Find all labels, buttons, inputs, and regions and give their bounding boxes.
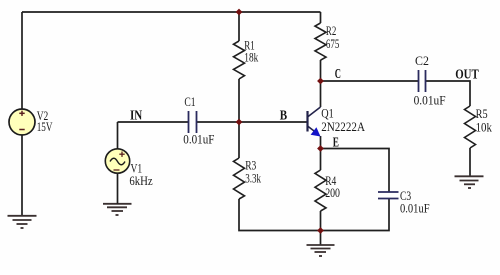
capacitor C3	[378, 192, 399, 199]
svg-text:0.01uF: 0.01uF	[414, 93, 446, 108]
svg-text:B: B	[280, 109, 287, 124]
junction ground bus	[317, 227, 324, 234]
ground main (emitter bus)	[307, 245, 335, 256]
svg-text:0.01uF: 0.01uF	[183, 132, 214, 147]
ground under V2	[8, 216, 37, 228]
wire C1 to node B junction	[197, 121, 239, 123]
svg-text:IN: IN	[130, 108, 142, 123]
resistor R4	[315, 170, 326, 211]
wire R3 bottom lead and bottom bus to ground junction	[239, 199, 321, 231]
wire main ground stub	[320, 231, 322, 245]
capacitor C1	[189, 111, 197, 133]
wire V1 stub up to IN wire	[117, 122, 119, 149]
junction node B	[236, 119, 243, 126]
svg-text:10k: 10k	[476, 119, 493, 134]
V1 sine wave	[110, 158, 125, 165]
V1 plus mark	[119, 152, 124, 157]
wire R1 top lead from bus	[238, 12, 240, 41]
svg-text:C2: C2	[415, 53, 429, 68]
wire R3 top lead	[238, 122, 240, 158]
wire R2 bottom lead to node C	[320, 60, 322, 81]
V1 minus mark	[114, 169, 120, 171]
resistor R2	[315, 23, 326, 60]
source V2	[9, 109, 35, 135]
ground under V1	[103, 204, 132, 215]
svg-text:3.3k: 3.3k	[245, 170, 261, 185]
transistor Q1	[308, 107, 321, 134]
wire IN node to C1	[118, 121, 189, 123]
wire C2 to OUT corner down to R5	[426, 81, 470, 106]
junction node E	[317, 145, 324, 152]
svg-text:15V: 15V	[37, 119, 53, 134]
svg-text:675: 675	[326, 36, 339, 51]
wire R5 bottom lead to ground	[469, 148, 471, 176]
wire base: node B junction to Q1 base	[239, 121, 307, 123]
wire V2 bottom to ground	[21, 135, 23, 215]
svg-text:18k: 18k	[244, 50, 258, 65]
source V1	[105, 149, 129, 173]
wire bottom bus right: ground junction to C3 bottom	[321, 198, 390, 231]
svg-text:2N2222A: 2N2222A	[321, 119, 365, 134]
capacitor C2	[419, 70, 426, 92]
wire V1 bottom to ground	[117, 174, 119, 204]
V2 plus mark	[19, 111, 24, 116]
svg-text:200: 200	[325, 185, 340, 200]
wire R4 bottom lead	[320, 211, 322, 231]
wire node C to C2	[321, 80, 419, 82]
svg-text:6kHz: 6kHz	[129, 173, 152, 188]
ground under R5	[455, 176, 484, 188]
wire node E to C3 top	[321, 149, 390, 193]
resistor R1	[234, 41, 245, 79]
resistor R5	[465, 106, 476, 148]
svg-text:E: E	[333, 135, 339, 150]
wire collector: node C down to Q1	[320, 81, 322, 107]
junction node at top bus / R1	[236, 9, 243, 16]
V2 minus mark	[19, 129, 24, 131]
wire R1 bottom lead to node B	[238, 79, 240, 122]
Q1 emitter arrow	[311, 127, 321, 136]
junction node C	[317, 78, 324, 85]
resistor R3	[234, 158, 245, 199]
svg-text:C: C	[335, 67, 341, 82]
svg-text:C1: C1	[184, 94, 195, 109]
wire R2 top lead from bus corner	[320, 12, 322, 23]
svg-text:0.01uF: 0.01uF	[400, 201, 430, 216]
wire top bus	[22, 11, 321, 13]
svg-text:OUT: OUT	[455, 68, 479, 83]
wire R4 top lead	[320, 149, 322, 171]
wire left vertical to V2	[21, 12, 23, 109]
wire emitter vertical to node E	[320, 136, 322, 149]
